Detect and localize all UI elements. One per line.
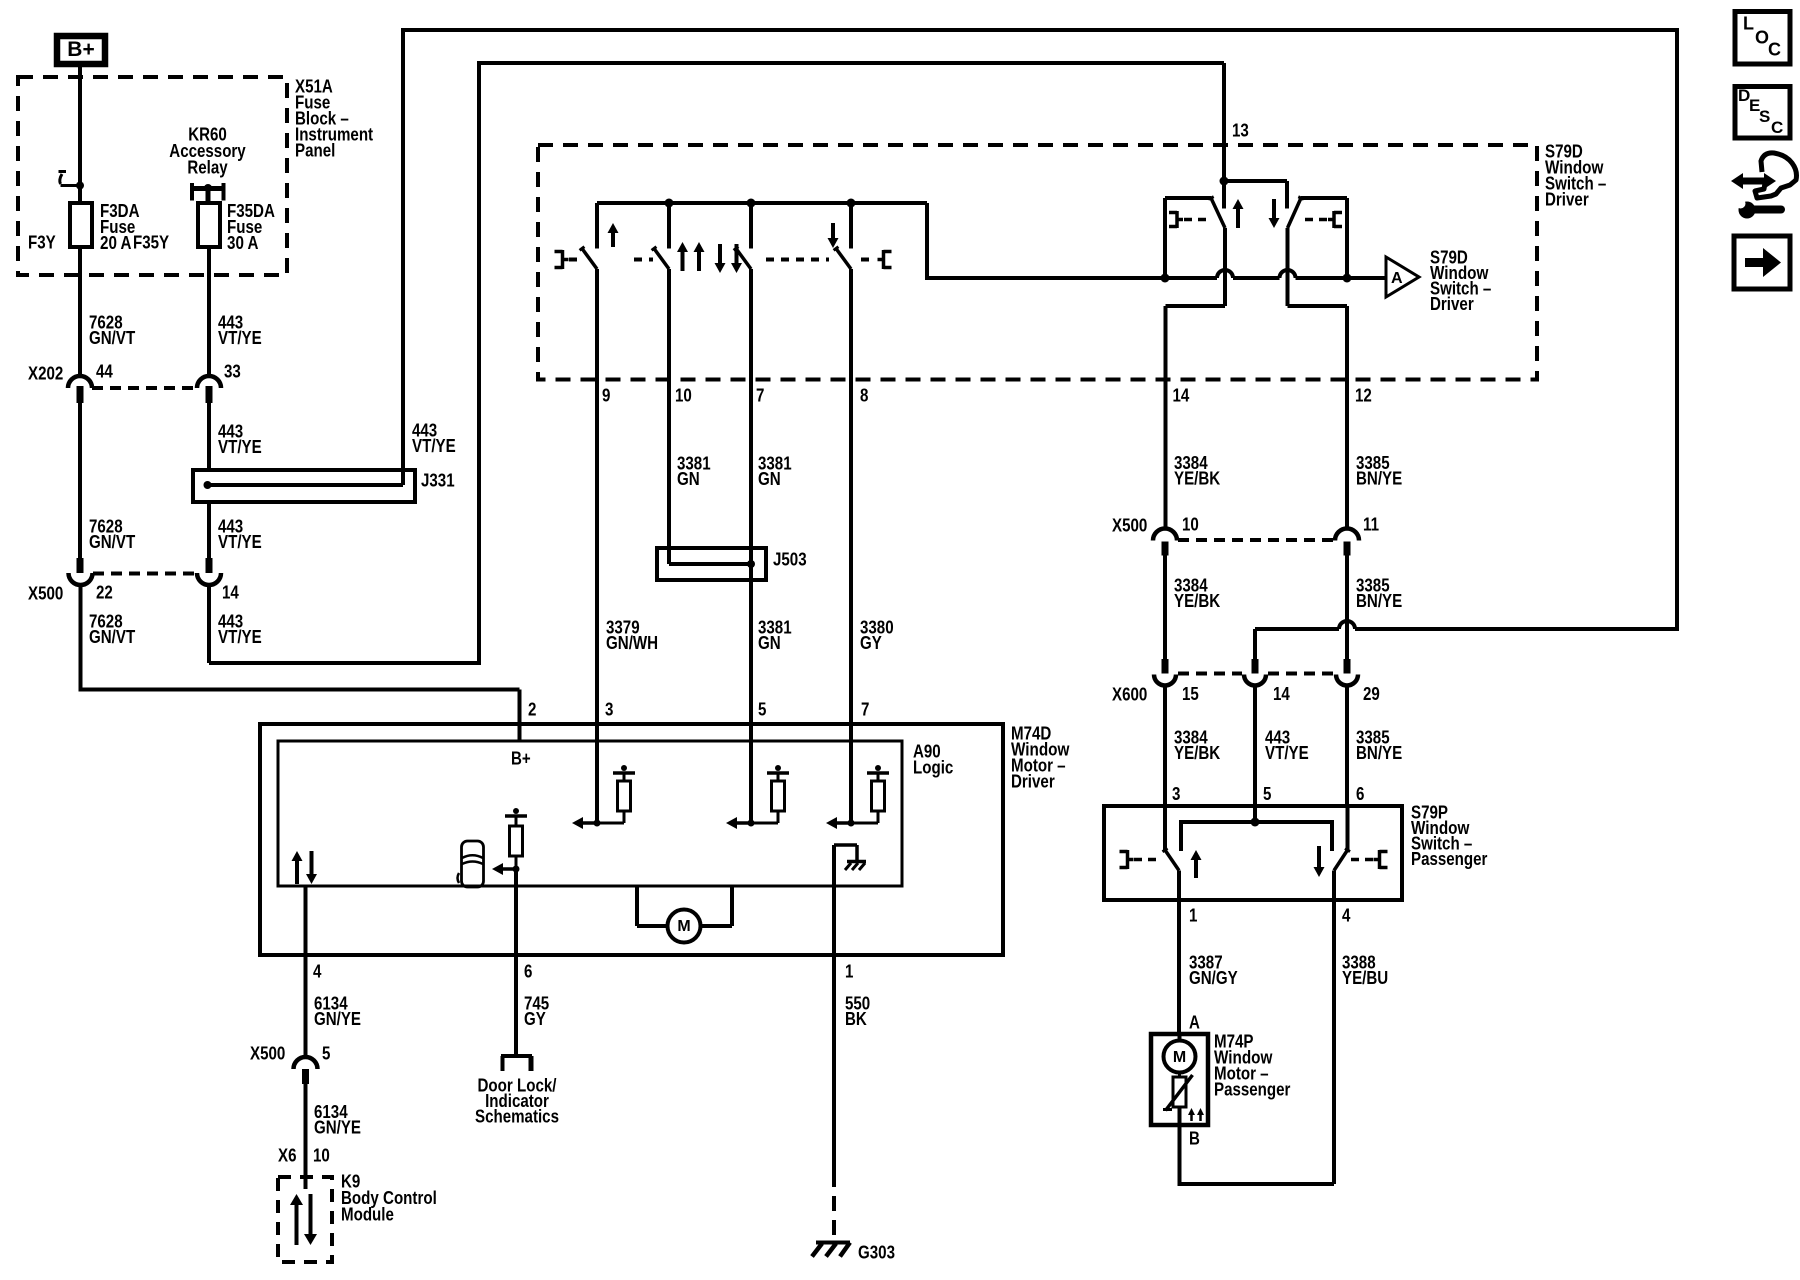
svg-text:44: 44 <box>96 362 113 382</box>
rocker switch driver down contact <box>1345 198 1349 278</box>
rocker up arrow <box>1236 207 1240 228</box>
svg-text:GN: GN <box>758 633 781 653</box>
svg-text:B+: B+ <box>67 38 94 61</box>
svg-text:14: 14 <box>1273 684 1290 704</box>
svg-text:GN: GN <box>758 469 781 489</box>
svg-text:5: 5 <box>758 700 766 720</box>
relay KR60 contact symbol <box>190 183 194 201</box>
S79P down arrow <box>1317 846 1321 869</box>
sensor input pin 7 <box>875 765 881 771</box>
svg-text:GY: GY <box>524 1009 546 1029</box>
svg-text:YE/BK: YE/BK <box>1174 469 1220 489</box>
svg-text:X6: X6 <box>278 1146 297 1166</box>
svg-text:O: O <box>1755 28 1769 48</box>
wire motor pin 5 into logic <box>749 724 753 823</box>
svg-text:A: A <box>1391 270 1403 287</box>
wire pin 13 branch to down contact <box>1224 179 1287 183</box>
switch S79P box <box>1104 806 1402 900</box>
svg-text:L: L <box>1743 14 1754 34</box>
svg-text:X500: X500 <box>28 584 63 604</box>
svg-text:C: C <box>1768 40 1781 60</box>
wire top outer loop J331 to right side <box>401 28 1679 32</box>
wire 7628 GN/VT X202 to X500 <box>78 403 82 558</box>
motor M74P box <box>1151 1034 1208 1125</box>
module K9 Body Control Module dashed box <box>278 1177 332 1262</box>
svg-text:Driver: Driver <box>1430 294 1474 314</box>
svg-text:8: 8 <box>860 386 868 406</box>
wire M74P B to pin 4 return <box>1178 1107 1182 1125</box>
wire motor pin 3 into logic <box>595 724 599 823</box>
detent bracket rocker right <box>1332 211 1336 228</box>
car position icon <box>462 841 484 887</box>
svg-text:Panel: Panel <box>295 141 335 161</box>
detent bracket right driver-pad <box>882 250 886 269</box>
svg-text:14: 14 <box>222 583 239 603</box>
svg-text:20 A: 20 A <box>100 233 132 253</box>
switch contact pin 10 <box>665 199 674 208</box>
motor M circle M74D <box>635 886 639 926</box>
logic internal ground <box>834 843 857 847</box>
svg-text:GN/GY: GN/GY <box>1189 968 1238 988</box>
ground G303 <box>816 1241 850 1245</box>
K9 up-down arrows <box>295 1203 299 1245</box>
svg-text:33: 33 <box>224 362 241 382</box>
svg-text:YE/BU: YE/BU <box>1342 968 1388 988</box>
svg-text:22: 22 <box>96 583 113 603</box>
wire 3381 GN pin 7 to motor pin 5 <box>749 380 753 725</box>
svg-text:4: 4 <box>313 962 321 982</box>
wire 7628 GN/VT X500 to motor pin 2 <box>79 585 83 690</box>
svg-text:VT/YE: VT/YE <box>412 436 456 456</box>
svg-text:GN/WH: GN/WH <box>606 633 658 653</box>
A90 logic box <box>278 741 902 886</box>
svg-text:12: 12 <box>1355 386 1372 406</box>
motor M74D outer box <box>260 724 1003 955</box>
wire 7628 GN/VT fuse F3DA to X202 <box>78 247 82 376</box>
wire 3380 GY pin 8 to motor pin 7 <box>849 380 853 725</box>
svg-text:VT/YE: VT/YE <box>1265 743 1309 763</box>
svg-text:VT/YE: VT/YE <box>218 437 262 457</box>
svg-text:BN/YE: BN/YE <box>1356 743 1402 763</box>
svg-text:GY: GY <box>860 633 882 653</box>
svg-text:F35Y: F35Y <box>133 233 169 253</box>
icon LOC box <box>1735 12 1790 65</box>
svg-text:GN/YE: GN/YE <box>314 1009 361 1029</box>
wire 3385 BN/YE X600 to S79P pin 6 <box>1345 686 1349 807</box>
svg-text:Relay: Relay <box>187 158 227 178</box>
node A triangle S79D Window Switch - Driver <box>1386 257 1419 297</box>
switch common bus driver-pad <box>597 201 927 205</box>
svg-text:5: 5 <box>1263 784 1271 804</box>
wire 3381 GN pin 10 to J503 <box>667 380 671 565</box>
switch contact pin 9 <box>595 203 599 249</box>
svg-text:BK: BK <box>845 1009 867 1029</box>
logic up-down arrows <box>295 859 299 884</box>
fuse F3DA 20A <box>70 203 92 247</box>
svg-text:9: 9 <box>602 386 610 406</box>
svg-text:10: 10 <box>313 1146 330 1166</box>
icon wrench <box>1739 202 1756 219</box>
S79P down switch pin 6 to pin 4 <box>1346 806 1350 850</box>
down arrow single <box>831 223 835 240</box>
svg-text:G303: G303 <box>858 1243 895 1263</box>
svg-text:Passenger: Passenger <box>1411 849 1487 869</box>
svg-text:1: 1 <box>1189 906 1197 926</box>
svg-text:10: 10 <box>1182 515 1199 535</box>
wire 3387 GN/GY S79P to motor M74P <box>1177 900 1181 1034</box>
S79P up arrow <box>1194 858 1198 878</box>
svg-text:11: 11 <box>1363 515 1379 535</box>
svg-text:14: 14 <box>1173 386 1190 406</box>
wire 6134 GN/YE X500 to X6 <box>304 1084 308 1189</box>
wire 550 BK motor pin 1 to ground <box>832 955 836 1172</box>
svg-text:Passenger: Passenger <box>1214 1080 1290 1100</box>
wire 443 VT/YE fuse F35DA to X202 <box>207 247 211 376</box>
svg-text:15: 15 <box>1182 684 1199 704</box>
svg-text:F3Y: F3Y <box>28 233 56 253</box>
svg-text:YE/BK: YE/BK <box>1174 591 1220 611</box>
relay contact arm at F3DA <box>59 170 67 173</box>
rocker down arrow <box>1272 199 1276 220</box>
sensor input pin 6 <box>513 808 519 814</box>
svg-text:GN: GN <box>677 469 700 489</box>
svg-text:Schematics: Schematics <box>475 1107 559 1127</box>
svg-text:X500: X500 <box>1112 516 1147 536</box>
svg-text:Driver: Driver <box>1011 772 1055 792</box>
icon DESC box <box>1735 87 1790 139</box>
svg-text:6: 6 <box>524 962 532 982</box>
wire top horizontal to switch pin 13 <box>477 61 1224 65</box>
up arrow single <box>611 231 615 247</box>
svg-text:7: 7 <box>756 386 764 406</box>
svg-text:GN/VT: GN/VT <box>89 627 135 647</box>
svg-text:J331: J331 <box>421 471 455 491</box>
svg-text:B+: B+ <box>511 749 531 769</box>
fuse block X51A dashed box <box>18 77 287 275</box>
linkage dashes driver-pad <box>569 258 584 262</box>
svg-text:2: 2 <box>528 700 536 720</box>
wire 3388 YE/BU S79P to motor M74P <box>1332 900 1336 1184</box>
splice J503 <box>657 548 766 580</box>
svg-text:C: C <box>1771 118 1783 137</box>
svg-text:3: 3 <box>605 700 613 720</box>
wire 443 VT/YE loop feed into J331 from top <box>401 30 405 485</box>
svg-text:29: 29 <box>1363 684 1380 704</box>
svg-text:4: 4 <box>1342 906 1350 926</box>
detent bracket S79P right <box>1378 850 1382 869</box>
wire riser 443 VT/YE up to top bus <box>477 63 481 665</box>
wire 443 VT/YE X500 to loop riser <box>207 585 211 663</box>
svg-text:Logic: Logic <box>913 758 953 778</box>
icon vehicle data double arrow <box>1741 178 1766 185</box>
svg-text:3: 3 <box>1172 784 1180 804</box>
battery B+ terminal <box>57 36 105 64</box>
wire 443 VT/YE X202 to J331 <box>207 403 211 470</box>
svg-text:J503: J503 <box>773 550 807 570</box>
sensor input pin 3 <box>621 765 627 771</box>
svg-text:YE/BK: YE/BK <box>1174 743 1220 763</box>
wire 550 BK ground wire inside motor <box>832 845 836 955</box>
rocker switch driver up contact <box>1163 198 1167 278</box>
wire 3384 YE/BK X600 to S79P pin 3 <box>1163 686 1167 807</box>
wire B+ to fuse F3DA <box>78 67 82 203</box>
S79P common feed U <box>1181 822 1332 851</box>
svg-text:GN/VT: GN/VT <box>89 328 135 348</box>
svg-text:M: M <box>677 918 690 935</box>
svg-text:1: 1 <box>845 962 853 982</box>
wire 6134 GN/YE motor pin 4 to X500 <box>304 886 308 1058</box>
wire pin 6 down from sensor <box>514 869 518 955</box>
wire motor pin 7 into logic <box>849 724 853 823</box>
sensor input pin 5 <box>775 765 781 771</box>
M74P motor circle <box>1178 1034 1182 1040</box>
svg-text:VT/YE: VT/YE <box>218 627 262 647</box>
switch contact pin 7 <box>747 199 756 208</box>
icon vehicle outline <box>1755 153 1797 198</box>
off-page connector door lock <box>501 1054 532 1058</box>
svg-text:5: 5 <box>322 1044 330 1064</box>
svg-text:10: 10 <box>675 386 692 406</box>
svg-text:A: A <box>1189 1013 1200 1033</box>
svg-text:VT/YE: VT/YE <box>218 328 262 348</box>
svg-text:Driver: Driver <box>1545 190 1589 210</box>
switch S79D dashed box <box>538 145 1537 380</box>
detent bracket S79P left <box>1126 850 1130 869</box>
wire 3379 GN/WH pin 9 to motor pin 3 <box>595 380 599 725</box>
svg-text:B: B <box>1189 1129 1200 1149</box>
S79P up switch pin 3 to pin 1 <box>1163 806 1167 850</box>
splice J331 <box>193 470 415 502</box>
svg-text:GN/YE: GN/YE <box>314 1118 361 1138</box>
svg-text:S: S <box>1759 107 1770 126</box>
window up-up-down-down arrows <box>681 250 685 271</box>
svg-text:M: M <box>1173 1049 1186 1066</box>
svg-text:GN/VT: GN/VT <box>89 532 135 552</box>
svg-text:X500: X500 <box>250 1044 285 1064</box>
wire 443 VT/YE right side down to X600 pin 14 <box>1355 627 1679 631</box>
wire labels 3384 3385 below S79D <box>1164 380 1168 529</box>
svg-text:BN/YE: BN/YE <box>1356 469 1402 489</box>
switch common line to node A <box>925 276 1217 280</box>
M74P thermal breaker <box>1178 1073 1181 1078</box>
svg-text:6: 6 <box>1356 784 1364 804</box>
wire pin 13 into S79D <box>1222 63 1226 209</box>
svg-text:VT/YE: VT/YE <box>218 532 262 552</box>
wire 443 VT/YE X600 to S79P pin 5 <box>1253 686 1257 823</box>
svg-text:X202: X202 <box>28 364 63 384</box>
svg-text:Module: Module <box>341 1205 394 1225</box>
svg-text:BN/YE: BN/YE <box>1356 591 1402 611</box>
wire 3385 BN/YE X500 to X600 <box>1345 556 1349 660</box>
svg-text:13: 13 <box>1232 121 1249 141</box>
fuse F35DA 30A <box>198 203 220 247</box>
M74P up arrows <box>1190 1113 1193 1121</box>
wire 745 GY motor pin 6 to door lock schematics <box>514 955 518 1054</box>
svg-text:7: 7 <box>861 700 869 720</box>
detent bracket rocker left <box>1175 211 1179 228</box>
wire 3384 YE/BK X500 to X600 <box>1163 556 1167 660</box>
icon forward arrow box <box>1734 236 1790 289</box>
detent bracket left driver-pad <box>561 250 565 269</box>
svg-text:X600: X600 <box>1112 685 1147 705</box>
switch contact pin 8 <box>847 199 856 208</box>
wire 443 VT/YE J331 to X500 <box>207 502 211 558</box>
svg-text:30 A: 30 A <box>227 233 259 253</box>
